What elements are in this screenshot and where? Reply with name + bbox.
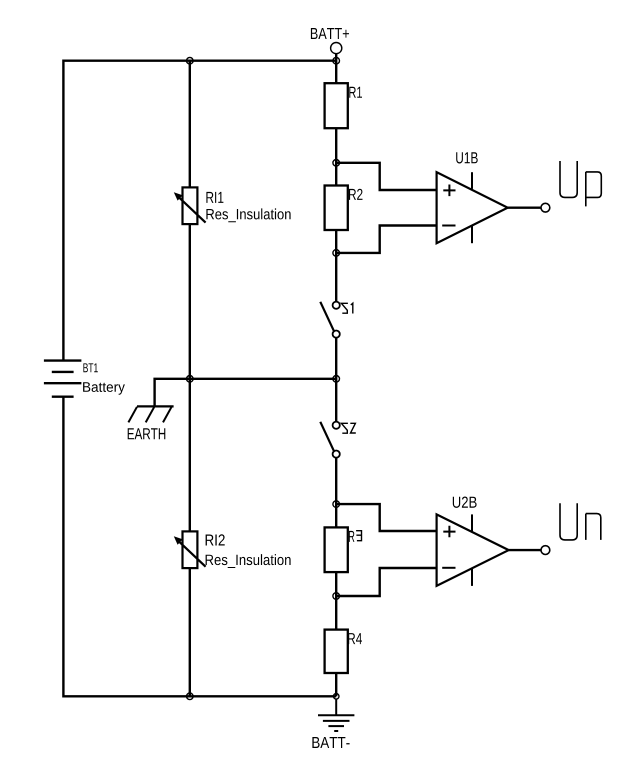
junction node J5 <box>187 376 194 383</box>
op-amp U2B minus sign <box>442 567 455 569</box>
junction node J1 <box>187 57 194 64</box>
switch S1 bottom contact <box>333 331 340 338</box>
wire U2B noninverting input <box>336 504 436 531</box>
earth symbol hatch 1 <box>128 407 137 423</box>
label S2 digit 2 <box>350 423 356 433</box>
label R3 letter R <box>349 531 354 542</box>
op-amp U2B plus sign <box>443 526 455 538</box>
wire U2B inverting input <box>336 568 436 596</box>
earth symbol hatch 3 <box>163 407 172 423</box>
op-amp U2B V+ pin <box>471 514 473 531</box>
wire U1B output <box>508 206 541 208</box>
label RI2 <box>206 534 225 545</box>
resistor RI2 body <box>183 531 198 568</box>
op-amp U1B V+ pin <box>471 172 473 189</box>
label Up letter U <box>560 161 577 197</box>
label Up letter p <box>586 172 602 207</box>
label S2 mirrored S <box>341 423 348 433</box>
wire RI column middle <box>189 224 191 531</box>
ground symbol stem <box>335 699 337 715</box>
op-amp U1B triangle <box>437 172 508 243</box>
label Un letter n <box>586 514 601 540</box>
wire U2B output <box>509 549 541 551</box>
label R2 <box>349 189 363 200</box>
resistor R2 <box>325 186 348 231</box>
wire S2 to R3 <box>335 458 337 528</box>
switch S2 bottom contact <box>333 451 340 458</box>
battery BT1 plate short upper <box>52 371 74 373</box>
battery BT1 plate short bottom <box>52 396 74 398</box>
junction node J8 <box>333 593 340 600</box>
label R1 <box>349 87 362 98</box>
ground symbol bar 3 <box>328 725 344 727</box>
battery BT1 plate long lower <box>44 382 82 384</box>
wire top rail and left upper vertical <box>63 61 336 361</box>
junction node J4 <box>333 250 340 257</box>
junction node J9 <box>187 693 194 700</box>
resistor RI1 arrow head <box>174 192 183 200</box>
earth symbol bar <box>137 405 174 407</box>
junction node J6 <box>333 376 340 383</box>
ground symbol bar 2 <box>323 720 350 722</box>
junction node J7 <box>333 501 340 508</box>
wire U1B inverting input <box>336 226 436 253</box>
wire U1B noninverting input <box>336 163 436 190</box>
output terminal Up <box>541 203 550 212</box>
op-amp U1B V- pin <box>471 226 473 244</box>
label S1 mirrored S <box>341 303 348 313</box>
label RI1 <box>206 192 223 203</box>
junction node J2 <box>333 57 340 64</box>
label BT1 <box>83 363 97 372</box>
wire left lower vertical and bottom rail <box>63 397 336 697</box>
wire R4 to BATT- node <box>335 673 337 696</box>
battery BT1 plate long top <box>44 359 82 361</box>
wire S1 to S2 <box>335 338 337 422</box>
ground symbol bar 1 <box>318 714 354 716</box>
ground symbol bar 4 <box>334 730 338 732</box>
wire RI column upper <box>189 60 191 188</box>
op-amp U2B triangle <box>437 514 509 586</box>
label BATT+ <box>311 28 349 39</box>
output terminal Un <box>541 546 550 555</box>
resistor R3 <box>325 527 348 572</box>
label U1B <box>456 152 478 163</box>
wire R2 to S1 <box>335 230 337 302</box>
resistor RI2 arrow head <box>174 536 183 544</box>
resistor RI1 body <box>183 187 198 224</box>
wire mid earth rail with drop to earth <box>155 379 337 406</box>
switch S2 top contact <box>333 422 340 429</box>
label R3 mirrored digit 3 <box>356 531 361 541</box>
earth symbol hatch 2 <box>146 407 155 423</box>
op-amp U2B V- pin <box>471 568 473 586</box>
label Res_Insulation RI2 <box>206 554 291 568</box>
resistor RI1 arrow shaft <box>179 198 205 223</box>
junction node J3 <box>333 160 340 167</box>
wire R3 to R4 <box>335 572 337 630</box>
wire BATT+ terminal to R1 <box>335 54 337 83</box>
label Res_Insulation RI1 <box>206 208 290 222</box>
resistor R4 <box>325 630 348 673</box>
label Un letter U <box>560 503 577 540</box>
switch S2 blade <box>320 422 334 451</box>
wire RI column lower <box>189 568 191 697</box>
resistor R1 <box>325 83 348 128</box>
label U2B <box>453 497 477 508</box>
label R4 <box>348 633 362 644</box>
wire R1 to R2 <box>335 128 337 185</box>
op-amp U1B minus sign <box>442 225 455 227</box>
terminal BATT+ <box>331 43 342 54</box>
label EARTH <box>128 428 166 439</box>
label Battery <box>83 382 125 395</box>
junction node J10 BATT- <box>333 694 339 700</box>
switch S1 blade <box>320 302 334 331</box>
resistor RI2 arrow shaft <box>179 542 205 567</box>
label S1 digit 1 <box>351 303 353 313</box>
op-amp U1B plus sign <box>443 185 455 197</box>
switch S1 top contact <box>333 302 340 309</box>
label BATT- <box>312 737 349 748</box>
